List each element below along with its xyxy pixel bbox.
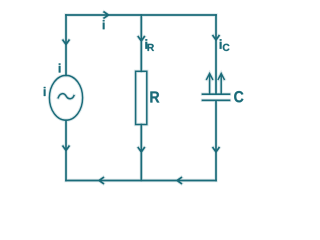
AC sine symbol inside source V1: [58, 94, 74, 99]
wire bottom horizontal (node B: return path): [66, 180, 216, 182]
label i (left of source V1): [44, 87, 46, 96]
arrow downward on left branch above source: [63, 40, 69, 44]
arrow current iC downward on capacitor branch: [213, 36, 219, 40]
label i (above source V1): [59, 63, 61, 72]
label C (capacitor designator): [234, 91, 243, 102]
label R (resistor designator): [150, 91, 159, 102]
arrow downward on capacitor branch bottom: [213, 148, 219, 152]
capacitor C bottom plate: [203, 99, 230, 101]
arrow current iR downward on resistor branch: [138, 37, 144, 41]
resistor R body: [136, 71, 147, 124]
capacitor displacement-current arrow left shaft: [209, 74, 211, 93]
capacitor displacement-current arrow right head: [218, 74, 224, 80]
label iC: subscript C: [223, 44, 230, 51]
arrow current i rightward on top wire: [104, 12, 108, 18]
AC voltage source V1 body: [49, 75, 82, 120]
wire left vertical lower (source V1 to bottom node): [65, 120, 67, 180]
label i (total current, below top arrow): [103, 20, 105, 29]
arrow leftward on bottom wire right section: [177, 178, 181, 184]
wire middle vertical upper (top junction to resistor R): [140, 15, 142, 71]
soft halo under wires (mimics source blur): [49, 12, 229, 184]
wire middle vertical lower (resistor R to bottom junction): [140, 125, 142, 181]
capacitor C top plate: [203, 93, 230, 95]
wire right vertical lower (capacitor C to bottom node): [215, 101, 217, 181]
label iC: letter i (capacitor branch current): [220, 39, 222, 49]
wire left vertical upper (top node to source V1): [65, 15, 67, 75]
arrow downward on left branch below source: [63, 146, 69, 150]
label iR: subscript R: [148, 44, 154, 51]
arrow leftward on bottom wire left section: [99, 178, 103, 184]
capacitor displacement-current arrow left head: [207, 74, 213, 80]
label iR: letter i (resistor branch current): [145, 39, 147, 49]
wire right vertical upper (top node to capacitor C): [215, 15, 217, 94]
arrow downward on resistor branch bottom: [138, 148, 144, 152]
wire top horizontal (node A: source to R to C): [66, 14, 216, 16]
capacitor displacement-current arrow right shaft: [220, 74, 222, 93]
